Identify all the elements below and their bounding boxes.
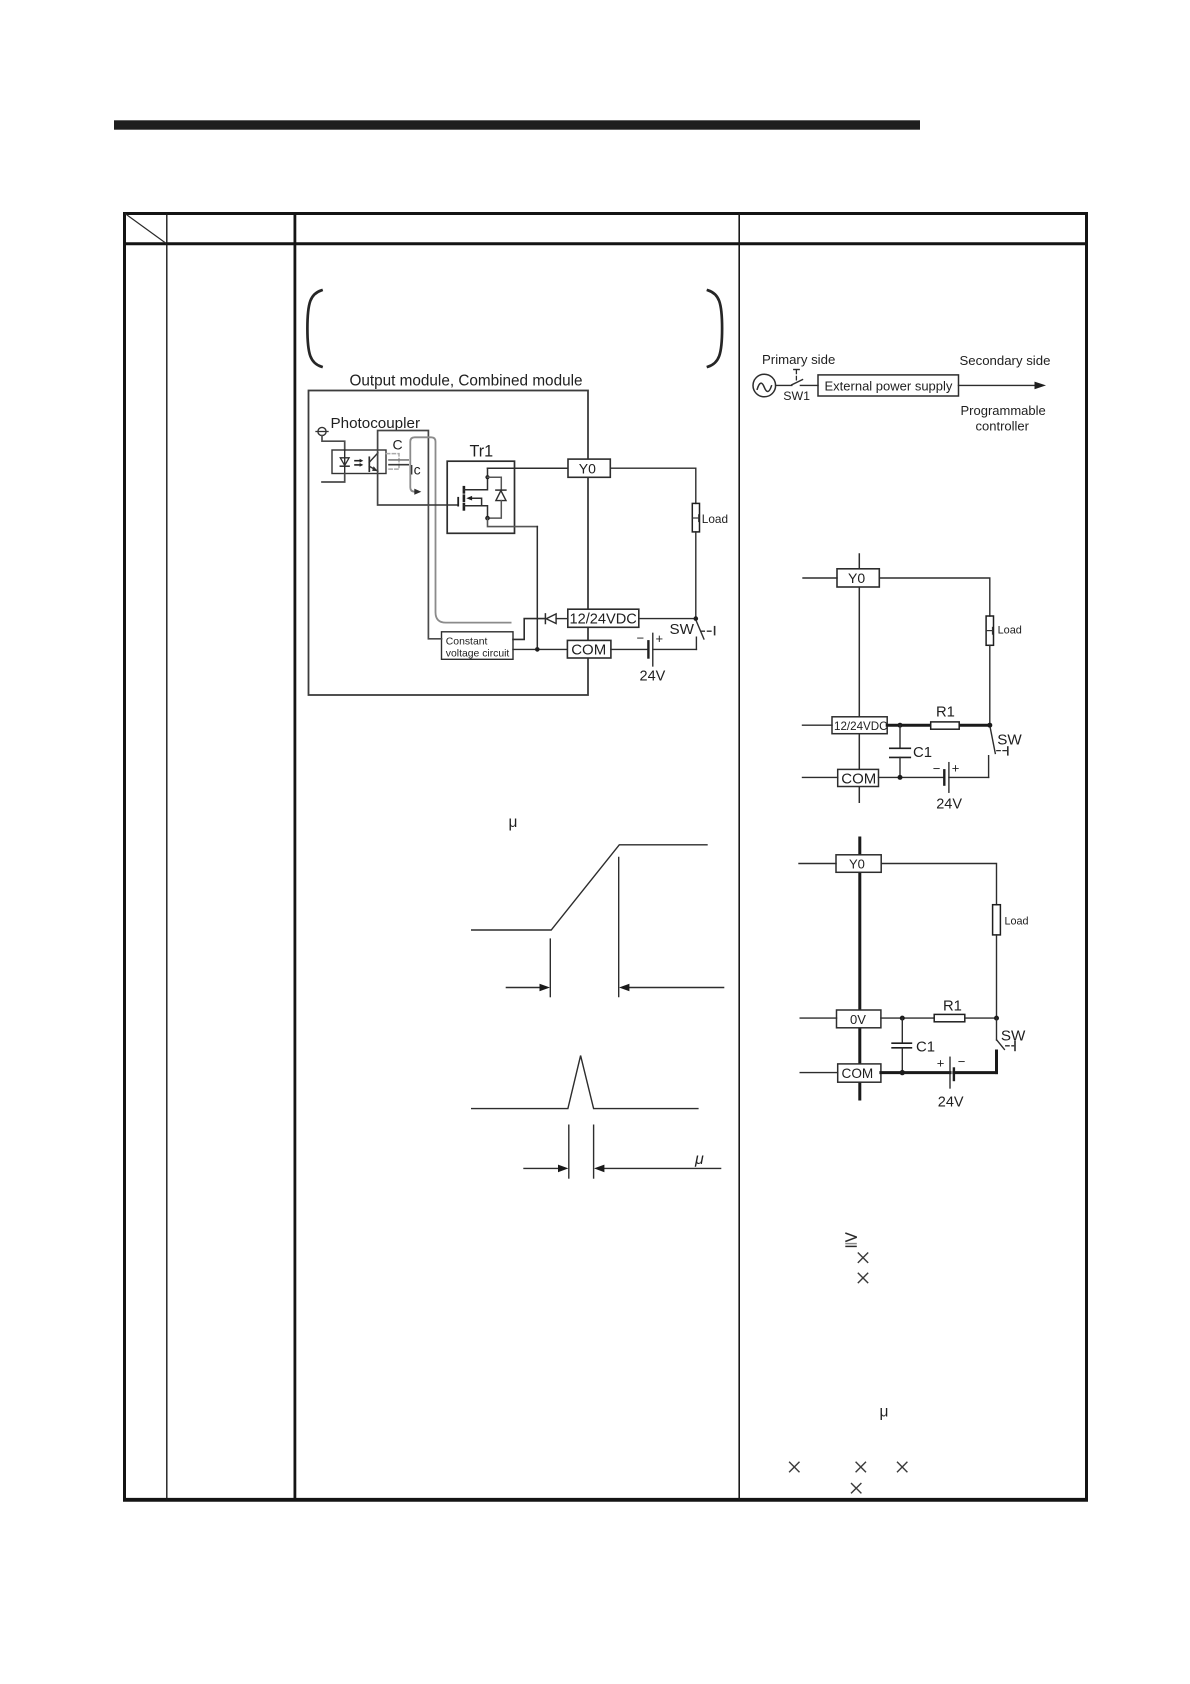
body diode cathode bar — [496, 489, 506, 491]
R1 resistor — [934, 1014, 965, 1021]
LED cathode bar — [340, 465, 349, 467]
light arrow upper — [355, 460, 360, 462]
battery long plate — [948, 763, 950, 793]
SW linkage — [701, 630, 713, 632]
SECTION: waveforms — [472, 814, 724, 1178]
svg-text:+: + — [937, 1055, 945, 1070]
svg-text:Load: Load — [998, 625, 1022, 637]
column rule 3 — [738, 213, 740, 1500]
12/24VDC terminal box — [568, 609, 639, 627]
multiply symbol 3 — [789, 1462, 799, 1472]
Ic loop arrowhead — [414, 489, 421, 495]
COM left stub — [800, 1072, 838, 1074]
capacitor plate lower — [389, 464, 408, 466]
COM terminal box — [567, 640, 611, 658]
svg-text:Output module, Combined module: Output module, Combined module — [350, 373, 583, 390]
Tr1 body arrow — [471, 498, 482, 506]
AC source — [753, 374, 776, 397]
Tr1 drain wire — [464, 468, 488, 490]
R1 wire to SW junction — [965, 1017, 997, 1019]
source junction dot — [485, 516, 490, 521]
COM junction dot — [535, 647, 540, 652]
pulse tick t1 — [568, 1125, 570, 1178]
svg-text:Programmable: Programmable — [961, 403, 1046, 418]
arrow to programmable controller — [959, 384, 1037, 386]
C1 junction dot — [898, 723, 903, 728]
battery 24V long plate — [652, 633, 654, 666]
multiply symbol 4 — [856, 1462, 866, 1472]
photocoupler outline box — [378, 431, 429, 506]
svg-text:C1: C1 — [913, 745, 932, 761]
svg-text:24V: 24V — [936, 797, 962, 813]
SW junction dot — [694, 616, 699, 621]
SECTION: left schematic — [307, 290, 728, 695]
body diode upper branch — [488, 477, 502, 490]
Tr1 channel electrodes — [463, 487, 466, 492]
svg-text:C1: C1 — [916, 1039, 935, 1055]
multiply symbol 2 — [858, 1273, 868, 1283]
0V wire to R1 — [881, 1017, 934, 1019]
SW linkage — [1006, 1045, 1014, 1047]
wire Y0 to load — [881, 864, 996, 905]
Y0 bus line — [858, 554, 860, 802]
COM left stub — [803, 776, 838, 778]
phototransistor collector — [369, 453, 378, 462]
external power supply box — [818, 375, 959, 396]
C1 lower wire — [899, 757, 901, 777]
battery riser — [988, 756, 990, 778]
LED cell box — [332, 450, 386, 474]
column rule 1 — [166, 213, 168, 1500]
wire load to R1 junction — [996, 935, 998, 1018]
svg-text:Photocoupler: Photocoupler — [331, 415, 421, 432]
pulse tick t2 — [593, 1125, 595, 1178]
svg-text:C: C — [393, 437, 403, 453]
greater-or-equal symbol — [845, 1233, 857, 1246]
svg-text:controller: controller — [976, 419, 1030, 434]
svg-text:Y0: Y0 — [579, 460, 596, 476]
svg-text:External power supply: External power supply — [825, 378, 953, 393]
table outer border — [125, 214, 1087, 1501]
constant voltage circuit box — [442, 632, 514, 660]
svg-text:SW1: SW1 — [783, 389, 810, 403]
svg-text:Y0: Y0 — [848, 570, 865, 586]
light arrow lower — [355, 464, 360, 466]
SW1 wire left — [776, 384, 792, 386]
SW1 blade — [792, 380, 803, 385]
load resistor — [993, 905, 1001, 935]
SW junction dot — [994, 1016, 999, 1021]
wire Y0 to load — [610, 468, 696, 503]
battery riser — [695, 637, 697, 649]
svg-text:μ: μ — [880, 1404, 889, 1421]
svg-text:Load: Load — [702, 512, 728, 526]
svg-text:12/24VDC: 12/24VDC — [834, 720, 888, 733]
svg-text:μ: μ — [509, 814, 518, 831]
phototransistor emitter — [369, 466, 378, 471]
multiply symbol 1 — [858, 1253, 868, 1263]
dimension arrow right (pulse) — [601, 1167, 721, 1169]
svg-text:−: − — [933, 761, 941, 776]
battery wire to riser — [949, 776, 989, 778]
capacitor plate upper — [389, 459, 408, 461]
svg-text:24V: 24V — [640, 669, 666, 685]
12/24VDC terminal box — [832, 717, 887, 734]
svg-text:−: − — [637, 631, 645, 646]
svg-text:Tr1: Tr1 — [470, 443, 494, 461]
COM junction dot — [900, 1070, 905, 1075]
Y0 bus line (bold) — [858, 838, 861, 1099]
SW wire and blade — [996, 1018, 998, 1040]
C1 upper wire — [899, 725, 901, 748]
bold wire 12/24VDC to SW junction — [887, 724, 990, 727]
svg-text:−: − — [958, 1054, 966, 1069]
COM wire to battery (bold) — [881, 1071, 950, 1074]
svg-text:Ic: Ic — [410, 461, 421, 477]
COM to battery wire — [611, 648, 649, 650]
battery wire to riser (bold) — [954, 1071, 997, 1074]
C1 lower wire — [901, 1048, 903, 1073]
C1 plates — [892, 1042, 911, 1044]
COM junction dot — [898, 775, 903, 780]
body diode lower branch — [488, 501, 502, 518]
drain junction dot — [485, 475, 489, 479]
Tr1 source lead out — [488, 518, 538, 527]
Y0 left stub — [803, 577, 837, 579]
svg-text:voltage circuit: voltage circuit — [446, 649, 510, 660]
C1 plates — [890, 747, 911, 749]
svg-text:+: + — [952, 760, 960, 775]
svg-text:+: + — [656, 631, 664, 646]
battery long plate — [949, 1057, 951, 1088]
svg-text:COM: COM — [842, 1066, 874, 1081]
svg-text:0V: 0V — [850, 1012, 866, 1027]
pulse waveform — [472, 1056, 698, 1109]
multiply symbol 5 — [897, 1462, 907, 1472]
SECTION: bottom symbols — [789, 1233, 907, 1493]
input terminal — [318, 427, 326, 435]
phototransistor base bar — [368, 457, 370, 471]
dimension arrow left (pulse) — [524, 1167, 562, 1169]
wire load to R1 junction — [989, 645, 991, 725]
svg-text:R1: R1 — [936, 705, 955, 721]
12/24VDC left stub — [803, 724, 833, 726]
wire 12/24VDC to SW junction — [639, 618, 696, 620]
Tr1 source wire — [464, 506, 488, 518]
svg-text:12/24VDC: 12/24VDC — [570, 612, 637, 628]
svg-text:R1: R1 — [943, 999, 962, 1015]
battery short plate — [943, 770, 945, 784]
wire Y0 to load — [879, 578, 990, 616]
dashed links to parasitic capacitor — [387, 454, 400, 470]
module protection diode — [546, 614, 556, 624]
wire load to SW junction — [695, 532, 697, 617]
multiply symbol 6 — [851, 1483, 861, 1493]
Y0 terminal box — [836, 855, 881, 873]
big right parenthesis — [708, 290, 722, 366]
C1 junction dot — [900, 1016, 905, 1021]
Y0 terminal box — [837, 569, 879, 587]
load resistor (left schematic) — [692, 503, 699, 532]
svg-text:Constant: Constant — [446, 637, 488, 648]
Tr1 box — [447, 461, 514, 533]
Ic current loop — [410, 437, 510, 622]
ramp tick t1 — [549, 939, 551, 997]
header diagonal — [125, 214, 166, 244]
COM wire to battery — [879, 776, 945, 778]
page title rule bar — [114, 120, 920, 129]
svg-text:24V: 24V — [938, 1094, 964, 1110]
wire Tr1 to COM junction — [536, 527, 538, 650]
0V left stub — [800, 1017, 836, 1019]
SW junction dot — [987, 723, 992, 728]
module protection diode wire — [556, 618, 568, 620]
wire photocoupler to constant voltage circuit — [428, 505, 441, 639]
C1 upper wire — [901, 1018, 903, 1043]
LED anode triangle — [340, 458, 349, 466]
svg-text:SW: SW — [997, 732, 1022, 749]
load resistor — [986, 616, 993, 645]
COM wire — [513, 648, 567, 650]
battery short plate — [953, 1069, 955, 1081]
header row rule — [123, 242, 1087, 245]
input wire — [322, 436, 345, 450]
svg-text:Secondary side: Secondary side — [960, 353, 1051, 368]
svg-text:SW: SW — [1001, 1027, 1026, 1044]
ramp tick t2 — [618, 858, 620, 997]
battery riser (bold) — [995, 1051, 998, 1073]
svg-text:Primary side: Primary side — [762, 352, 835, 367]
Y0 terminal box — [568, 459, 610, 477]
LED bottom stub wire — [322, 474, 345, 483]
svg-text:μ: μ — [694, 1151, 704, 1168]
SW1 linkage — [795, 370, 797, 381]
svg-text:COM: COM — [841, 770, 876, 787]
SECTION: right column — [753, 352, 1050, 1110]
Y0 left stub — [799, 863, 836, 865]
SW linkage — [997, 750, 1007, 752]
wire Y0 to Tr1 — [488, 467, 569, 469]
dimension arrow right (ramp) — [626, 987, 724, 989]
svg-text:COM: COM — [571, 642, 606, 659]
Tr1 gate wire — [428, 504, 458, 506]
SW blade — [696, 621, 704, 639]
COM terminal box — [838, 1064, 881, 1082]
svg-text:Y0: Y0 — [849, 856, 865, 871]
dimension arrow left (ramp) — [506, 987, 543, 989]
svg-text:Load: Load — [1005, 916, 1029, 928]
big left parenthesis — [307, 290, 321, 366]
battery 24V short plate — [647, 641, 649, 657]
0V terminal box — [837, 1010, 881, 1028]
battery wire to riser — [653, 648, 697, 650]
diode to constant voltage circuit wire — [513, 619, 545, 640]
body diode triangle — [496, 491, 506, 501]
output module box — [309, 391, 589, 696]
table bottom border — [123, 1498, 1088, 1502]
Tr1 gate electrode — [457, 498, 459, 506]
svg-text:SW: SW — [670, 621, 695, 638]
SW1 wire right — [800, 384, 818, 386]
COM terminal box — [838, 769, 879, 786]
column rule 2 — [293, 213, 296, 1500]
ramp waveform — [472, 845, 707, 930]
R1 resistor — [931, 722, 960, 729]
LED wire through — [344, 450, 346, 474]
SW blade — [990, 728, 995, 754]
